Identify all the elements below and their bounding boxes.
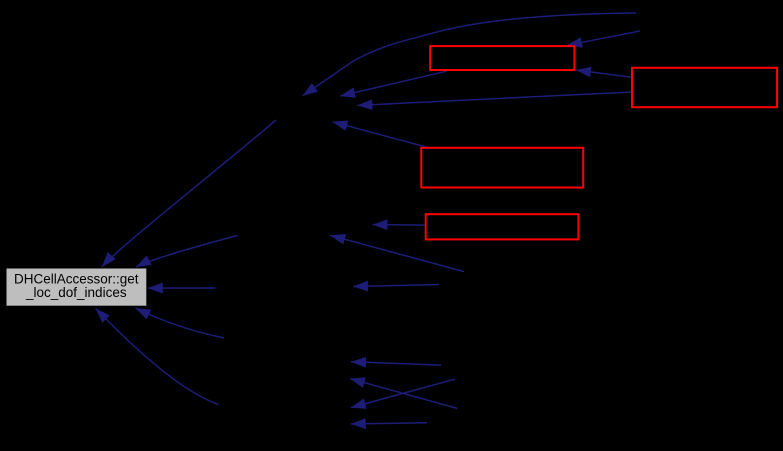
- svg-text:_loc_dof_indices: _loc_dof_indices: [25, 285, 127, 300]
